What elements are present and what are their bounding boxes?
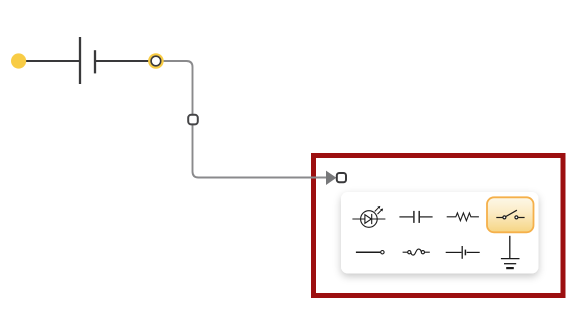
wire end port (square): [337, 173, 346, 182]
wire W2 (battery to node): [96, 60, 149, 62]
icon capacitor (palette r1c2): [399, 211, 432, 223]
icon LED (palette r1c1): [352, 206, 385, 227]
node N1 (selected junction, yellow ring): [148, 53, 164, 69]
highlighted cell (switch selected): [487, 197, 534, 232]
wire W1 (terminal to battery): [24, 60, 79, 62]
component palette card: [341, 192, 539, 274]
icon cell (palette r2c3): [446, 246, 480, 259]
selection frame (red): [314, 156, 564, 296]
terminal T1 (yellow endpoint): [11, 53, 26, 68]
icon fuse (palette r2c2): [403, 249, 430, 255]
wire handle (midpoint square): [188, 115, 198, 125]
icon switch (palette r1c4): [496, 210, 524, 219]
icon resistor (palette r1c3): [447, 213, 479, 221]
icon ground (palette r2c4): [501, 236, 520, 268]
battery B1: [80, 37, 95, 84]
icon wire stub (palette r2c1): [356, 251, 384, 254]
wire W3 (pending, gray): [164, 61, 327, 178]
wire end arrow: [326, 171, 336, 185]
